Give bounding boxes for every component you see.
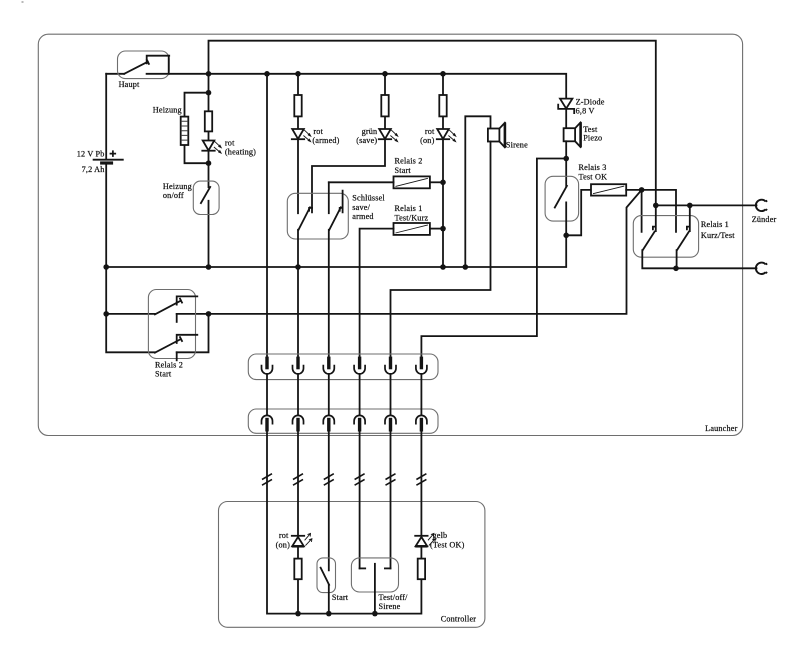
- wire heating led column: [208, 74, 210, 267]
- key switch pole 1 bottom wire: [297, 230, 299, 357]
- key switch S-Schluessel box: [287, 193, 348, 239]
- svg-text:7,2 Ah: 7,2 Ah: [82, 165, 105, 174]
- LED rot (armed): [292, 129, 311, 142]
- LED rot (heating): [202, 141, 221, 154]
- switch S-Start bottom wire: [328, 585, 330, 614]
- node dot heizung branch top: [206, 90, 212, 96]
- switch S-Relais3 blade: [555, 186, 567, 208]
- switch S-Relais1 pole B blade: [677, 232, 689, 251]
- key switch pole 1 blade: [299, 207, 311, 230]
- svg-text:6,8 V: 6,8 V: [576, 107, 595, 116]
- connector strip lower box: [248, 409, 438, 433]
- svg-text:Test: Test: [583, 125, 598, 134]
- svg-text:Kurz/Test: Kurz/Test: [701, 231, 735, 240]
- svg-text:Launcher: Launcher: [705, 424, 737, 433]
- svg-text:Sirene: Sirene: [379, 602, 401, 611]
- wire controller led2 to resistor: [297, 546, 299, 613]
- cable break col4: [355, 474, 365, 486]
- plug pair col3: [323, 357, 334, 432]
- piezo speaker Test Piezo: [564, 122, 581, 147]
- plug pair col4: [354, 357, 365, 432]
- switch S-Heizung-on/off blade: [201, 187, 210, 203]
- svg-text:Schlüssel: Schlüssel: [352, 194, 385, 203]
- relay coil K1 Test/Kurz: [394, 223, 430, 235]
- S-Test common lever: [374, 564, 376, 614]
- Controller enclosure box: [219, 502, 485, 628]
- node dot K2 right: [440, 180, 446, 186]
- svg-text:rot: rot: [225, 138, 235, 147]
- cable break col5: [386, 474, 396, 486]
- svg-text:Start: Start: [155, 370, 172, 379]
- LED rot (on): [437, 129, 456, 142]
- wire coil K1 right: [430, 228, 443, 230]
- wire coil K3 right: [626, 189, 641, 191]
- svg-text:grün: grün: [362, 127, 378, 136]
- svg-text:Start: Start: [395, 166, 412, 175]
- wire haupt input: [106, 73, 124, 75]
- svg-text:rot: rot: [425, 127, 435, 136]
- resistor R-save: [381, 95, 388, 116]
- wire heizung element branch: [185, 93, 209, 164]
- node dot rail rot-on: [440, 71, 446, 77]
- cable break col3: [324, 474, 334, 486]
- Launcher enclosure box: [38, 34, 742, 435]
- wire coil K2 left: [329, 181, 394, 183]
- switch S-Heizung-on/off box: [193, 181, 219, 214]
- switch S-Haupt blade: [124, 60, 149, 74]
- plug pair col2: [293, 357, 304, 432]
- node dot zuender top left: [653, 203, 659, 209]
- svg-text:Relais 3: Relais 3: [579, 163, 607, 172]
- switch S-Relais3 bottom wire: [565, 202, 567, 235]
- node dot K1 right: [440, 226, 446, 232]
- switch S-Relais1 pole B bottom: [676, 250, 678, 268]
- node dot bus rot-on: [440, 264, 446, 270]
- wire piezo node to col6 feed: [421, 159, 566, 358]
- svg-text:armed: armed: [352, 212, 373, 221]
- wire coil K1 left: [360, 229, 394, 357]
- Z-diode D1 6,8V: [558, 99, 574, 114]
- speaker Sirene: [488, 123, 505, 148]
- svg-text:rot: rot: [313, 127, 323, 136]
- wire relais2 contact node rail: [177, 314, 209, 352]
- svg-text:Start: Start: [332, 593, 349, 602]
- key switch pole 2 blade: [329, 207, 341, 230]
- resistor R-armed: [294, 95, 301, 116]
- svg-text:(save): (save): [356, 136, 377, 145]
- node dot battery pole1: [103, 311, 109, 317]
- svg-text:on/off: on/off: [163, 191, 184, 200]
- resistor R-ctrl-on: [294, 559, 301, 580]
- S-Relais2 pole 2 blade: [155, 337, 182, 353]
- wire col2 to controller: [297, 432, 299, 536]
- node dot relais3 bottom: [563, 233, 569, 239]
- node dot zuender top right: [687, 203, 693, 209]
- wire z-diode to piezo: [565, 109, 567, 128]
- node dot controller rail common: [372, 611, 378, 617]
- svg-text:Relais 1: Relais 1: [701, 220, 729, 229]
- LED gelb (Test OK): [415, 533, 435, 546]
- svg-text:Haupt: Haupt: [119, 80, 140, 89]
- connector Zuender top: [756, 200, 767, 211]
- wire col6 to controller: [420, 432, 422, 536]
- svg-text:Zünder: Zünder: [752, 215, 777, 224]
- svg-text:Heizung: Heizung: [163, 182, 192, 191]
- svg-text:(on): (on): [420, 136, 434, 145]
- switch S-Relais1-KurzTest box: [633, 216, 698, 258]
- node dot heizung branch bottom: [206, 160, 212, 166]
- node dot relais3 output: [639, 187, 645, 193]
- cable break col1: [262, 474, 272, 486]
- wire gruen save column: [312, 74, 385, 213]
- heating element R-Heizung: [181, 117, 189, 145]
- speck top-left: [22, 1, 24, 3]
- node dot haupt-heizung: [206, 71, 212, 77]
- switch S-Start box: [317, 558, 336, 593]
- switch S-Haupt box: [118, 51, 170, 79]
- wire battery to relay pole1: [106, 313, 155, 315]
- wire coil K2 right: [430, 181, 443, 183]
- svg-text:Relais 2: Relais 2: [155, 360, 183, 369]
- svg-text:Controller: Controller: [441, 615, 477, 624]
- S-Relais2 pole 1 inline contact hook: [176, 314, 178, 322]
- plug pair col1: [262, 357, 273, 432]
- node dot start-relay rail left: [206, 311, 212, 317]
- svg-text:(heating): (heating): [225, 148, 256, 157]
- wire sirene bottom: [391, 142, 491, 358]
- wire col5 to controller: [390, 432, 392, 569]
- node dot rail col1: [264, 71, 270, 77]
- switch S-Haupt contact: [147, 56, 170, 74]
- switch S-Start blade: [321, 568, 330, 585]
- svg-text:(on): (on): [276, 541, 290, 550]
- node dot controller rail start: [326, 611, 332, 617]
- svg-text:12 V Pb: 12 V Pb: [77, 149, 105, 158]
- wire controller led6 to resistor: [420, 546, 422, 558]
- node dot controller rail led2: [295, 611, 301, 617]
- S-Relais2 pole 2 inline contact hook: [176, 352, 178, 360]
- LED gruen (save): [379, 129, 398, 142]
- svg-text:Sirene: Sirene: [506, 141, 528, 150]
- node dot bus heizung: [206, 264, 212, 270]
- wire relais3 output to contact poles: [642, 190, 676, 232]
- wire col3 to controller: [328, 432, 330, 571]
- S-Relais2 pole 1 blade: [155, 299, 182, 315]
- relay contact S-Relais2-Start box: [148, 290, 195, 359]
- svg-text:Heizung: Heizung: [153, 106, 182, 115]
- switch S-Relais1 pole A contact stub: [653, 205, 656, 231]
- LED rot (on) controller: [292, 533, 312, 546]
- S-Relais2 pole 1 top contact: [177, 296, 198, 304]
- wire zuender top line: [656, 204, 757, 206]
- svg-text:Test/Kurz: Test/Kurz: [395, 214, 429, 223]
- S-Relais2 pole 2 top contact: [177, 335, 198, 343]
- key switch pole 1 contact hook: [309, 208, 312, 211]
- relay coil K3 Test OK: [591, 184, 626, 195]
- wire relais3 output diagonal to start-relay rail: [209, 190, 642, 314]
- wire negative bus: [106, 235, 566, 267]
- svg-text:Relais 1: Relais 1: [395, 204, 423, 213]
- plug pair col5: [385, 357, 396, 432]
- wire relais3 coil left link: [566, 190, 591, 235]
- switch S-Relais1 pole A bottom: [642, 250, 756, 268]
- node dot rail gruen: [382, 71, 388, 77]
- wire col4 to controller: [359, 432, 361, 569]
- resistor R-ctrl-testok: [418, 559, 425, 580]
- node dot bus battery: [103, 264, 109, 270]
- node dot zuender bottom: [673, 266, 679, 272]
- node dot bus key pole1: [295, 264, 301, 270]
- svg-text:rot: rot: [279, 531, 289, 540]
- svg-text:Test OK: Test OK: [579, 173, 608, 182]
- wire rot on column: [442, 74, 444, 267]
- connector strip upper box: [248, 354, 438, 380]
- S-Test contact right foot: [385, 567, 391, 569]
- cable break col6: [416, 474, 426, 486]
- wire battery negative column: [106, 164, 155, 353]
- wire battery positive rail: [147, 74, 567, 99]
- svg-text:(armed): (armed): [312, 136, 339, 145]
- resistor R-on: [439, 95, 446, 116]
- S-Test contact left foot: [360, 567, 366, 569]
- switch S-Relais1 pole A blade: [643, 232, 655, 251]
- node dot piezo bottom: [563, 156, 569, 162]
- svg-text:Z-Diode: Z-Diode: [576, 98, 605, 107]
- wire col1 to controller: [267, 432, 421, 614]
- switch S-Relais3 box: [545, 176, 579, 221]
- wire sirene top feed: [465, 116, 490, 267]
- switch S-Relais1 pole B contact stub: [687, 205, 690, 231]
- resistor R-heating: [205, 111, 212, 131]
- svg-text:Test/off/: Test/off/: [379, 593, 409, 602]
- connector Zuender bottom: [756, 263, 767, 274]
- svg-text:Piezo: Piezo: [583, 134, 602, 143]
- key switch pole 2 contact stub: [340, 191, 343, 213]
- wire rot armed column: [297, 74, 299, 213]
- svg-text:(Test OK): (Test OK): [430, 541, 465, 550]
- cable break col2: [293, 474, 303, 486]
- switch S-Test/off/Sirene box: [351, 558, 398, 592]
- key switch pole 2 bottom wire: [328, 230, 330, 357]
- plug pair col6: [416, 357, 427, 432]
- svg-text:Relais 2: Relais 2: [395, 157, 423, 166]
- relay coil K2 Start: [394, 176, 430, 188]
- wire piezo bottom node: [565, 141, 567, 186]
- wire column 1: [266, 74, 268, 357]
- svg-text:gelb: gelb: [433, 531, 448, 540]
- battery B1 column wire: [105, 74, 107, 159]
- svg-text:save/: save/: [352, 203, 370, 212]
- node dot rail col2: [295, 71, 301, 77]
- node dot bus sirene: [463, 264, 469, 270]
- wire top link rail: [209, 41, 656, 206]
- key switch pole 2 left stub: [328, 182, 330, 213]
- battery B1 12V Pb: [94, 159, 123, 161]
